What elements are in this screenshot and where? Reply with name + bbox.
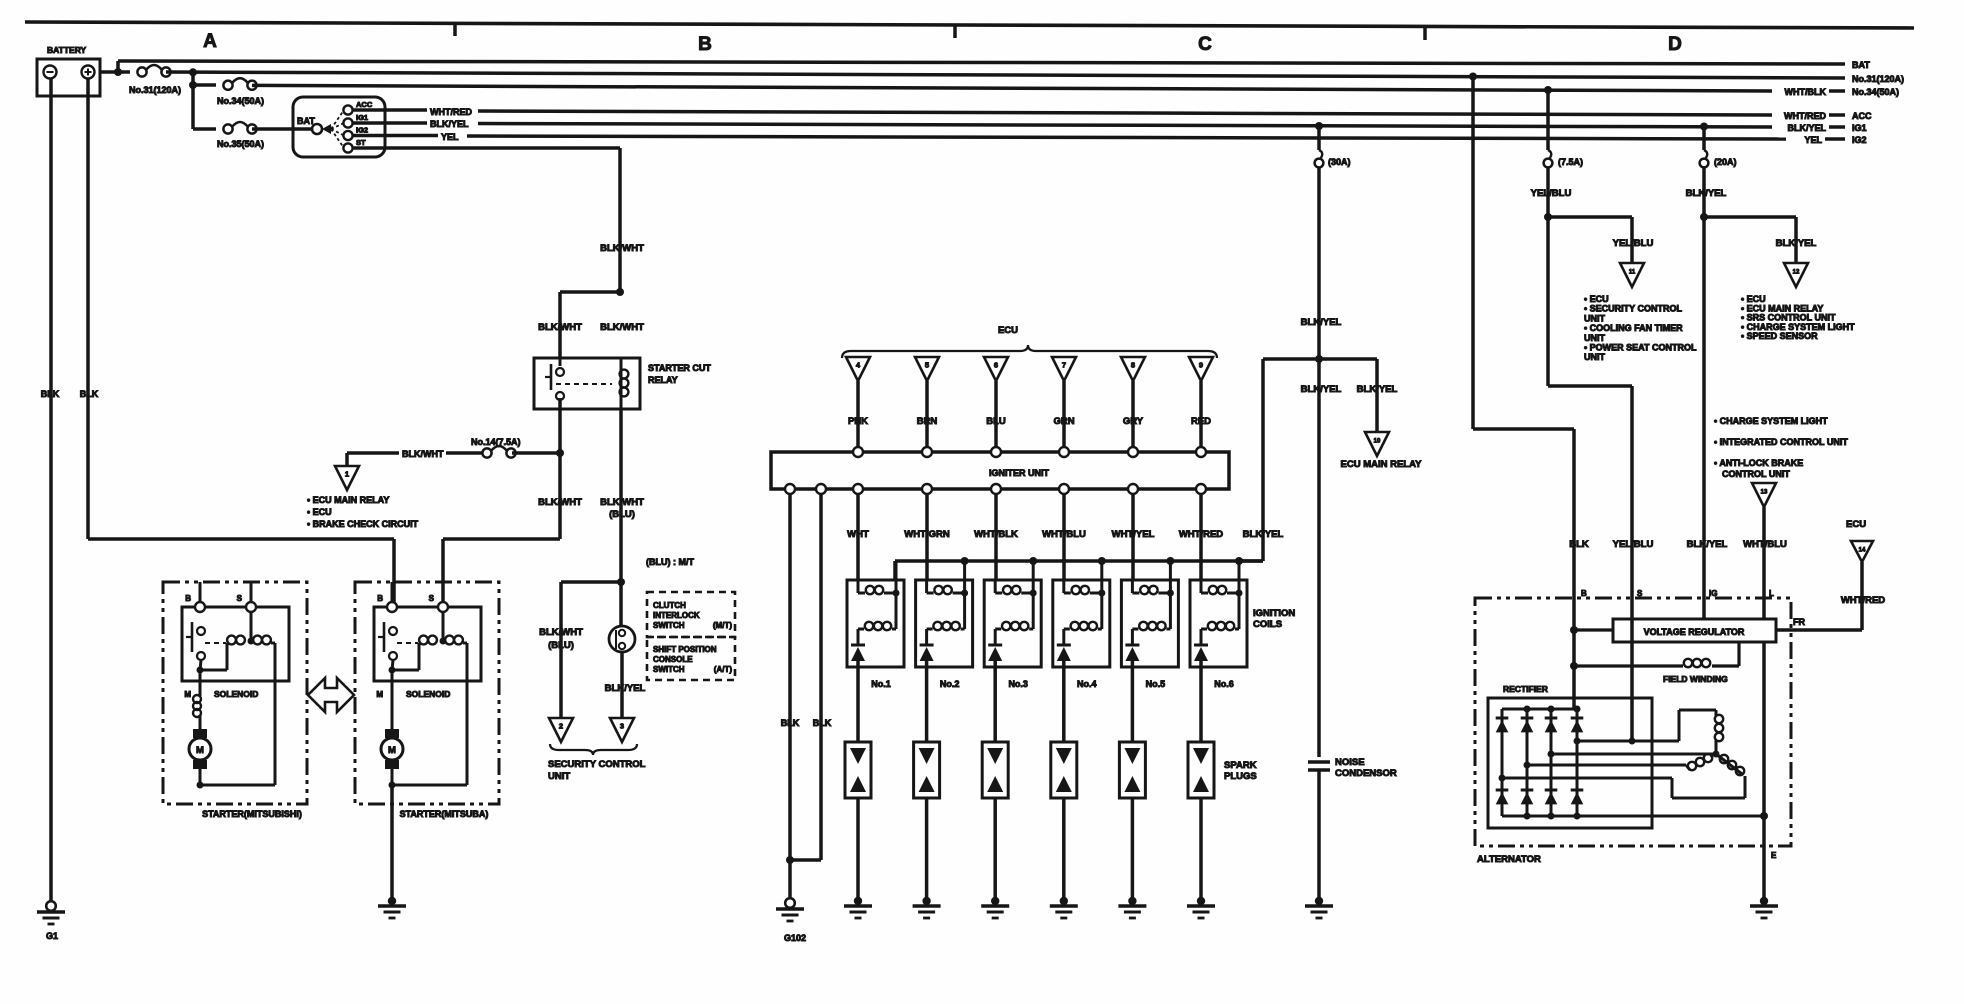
svg-text:No.6: No.6 xyxy=(1214,679,1234,689)
svg-text:UNIT: UNIT xyxy=(1584,352,1605,362)
svg-text:NOISE: NOISE xyxy=(1335,757,1365,768)
svg-text:(M/T): (M/T) xyxy=(713,621,732,630)
svg-text:PLUGS: PLUGS xyxy=(1224,771,1257,782)
svg-text:COILS: COILS xyxy=(1253,619,1282,630)
svg-text:• ECU: • ECU xyxy=(1584,294,1609,304)
svg-text:(30A): (30A) xyxy=(1328,157,1351,167)
svg-text:• BRAKE CHECK CIRCUIT: • BRAKE CHECK CIRCUIT xyxy=(307,519,419,529)
svg-text:IG1: IG1 xyxy=(1852,123,1867,133)
svg-text:UNIT: UNIT xyxy=(1584,313,1605,323)
svg-text:BLK/WHT: BLK/WHT xyxy=(539,627,583,638)
svg-text:YEL/BLU: YEL/BLU xyxy=(1531,188,1572,199)
svg-text:(7.5A): (7.5A) xyxy=(1558,157,1583,167)
svg-text:• ANTI-LOCK BRAKE: • ANTI-LOCK BRAKE xyxy=(1714,458,1803,468)
svg-text:(BLU): (BLU) xyxy=(609,509,635,520)
svg-text:RELAY: RELAY xyxy=(648,375,678,385)
svg-text:BLK: BLK xyxy=(41,389,60,399)
svg-text:• CHARGE SYSTEM LIGHT: • CHARGE SYSTEM LIGHT xyxy=(1714,416,1828,426)
svg-text:G102: G102 xyxy=(784,933,806,943)
svg-text:FIELD WINDING: FIELD WINDING xyxy=(1663,674,1728,684)
svg-text:WHT/BLK: WHT/BLK xyxy=(1785,87,1827,97)
svg-text:BLK/WHT: BLK/WHT xyxy=(600,243,644,254)
svg-text:• ECU MAIN RELAY: • ECU MAIN RELAY xyxy=(307,495,389,505)
svg-text:SHIFT POSITION: SHIFT POSITION xyxy=(653,645,717,654)
svg-text:No.5: No.5 xyxy=(1146,679,1166,689)
svg-text:GRN: GRN xyxy=(1053,416,1074,427)
svg-text:13: 13 xyxy=(1761,490,1768,496)
svg-text:ALTERNATOR: ALTERNATOR xyxy=(1477,854,1541,865)
svg-text:B: B xyxy=(698,34,712,55)
svg-text:RECTIFIER: RECTIFIER xyxy=(1503,684,1548,694)
svg-text:BLK/WHT: BLK/WHT xyxy=(538,497,582,508)
svg-text:IG: IG xyxy=(1709,589,1717,598)
svg-text:• SPEED SENSOR: • SPEED SENSOR xyxy=(1741,331,1818,341)
svg-text:7: 7 xyxy=(1062,361,1066,370)
svg-text:B: B xyxy=(377,594,383,603)
svg-text:No.14(7.5A): No.14(7.5A) xyxy=(471,437,521,447)
svg-text:IGNITER UNIT: IGNITER UNIT xyxy=(989,468,1050,478)
svg-text:CONDENSOR: CONDENSOR xyxy=(1335,768,1397,779)
svg-text:ST: ST xyxy=(356,138,366,147)
svg-text:YEL: YEL xyxy=(1804,135,1822,145)
svg-text:11: 11 xyxy=(1629,270,1636,276)
svg-text:BATTERY: BATTERY xyxy=(47,45,87,55)
svg-text:BLU: BLU xyxy=(986,416,1006,427)
svg-text:SPARK: SPARK xyxy=(1224,760,1257,771)
svg-text:No.34(50A): No.34(50A) xyxy=(217,96,264,106)
svg-text:14: 14 xyxy=(1859,548,1866,554)
svg-text:5: 5 xyxy=(925,361,929,370)
svg-text:B: B xyxy=(1581,589,1587,598)
svg-text:GRY: GRY xyxy=(1123,416,1144,427)
svg-text:STARTER CUT: STARTER CUT xyxy=(648,363,711,373)
svg-text:No.2: No.2 xyxy=(940,679,960,689)
svg-text:No.3: No.3 xyxy=(1008,679,1028,689)
svg-text:CONSOLE: CONSOLE xyxy=(653,655,693,664)
svg-text:SECURITY CONTROL: SECURITY CONTROL xyxy=(548,759,646,770)
svg-text:• COOLING FAN TIMER: • COOLING FAN TIMER xyxy=(1584,323,1683,333)
svg-text:BLK/YEL: BLK/YEL xyxy=(1776,238,1817,249)
svg-text:S: S xyxy=(237,594,243,603)
svg-text:No.31(120A): No.31(120A) xyxy=(1852,74,1904,84)
svg-text:CONTROL UNIT: CONTROL UNIT xyxy=(1722,469,1790,479)
svg-text:ECU MAIN RELAY: ECU MAIN RELAY xyxy=(1341,459,1423,470)
svg-text:8: 8 xyxy=(1131,361,1135,370)
svg-text:2: 2 xyxy=(559,722,563,731)
svg-text:BLK/YEL: BLK/YEL xyxy=(1301,317,1342,328)
svg-text:A: A xyxy=(203,31,217,52)
svg-text:BLK/YEL: BLK/YEL xyxy=(1787,123,1826,133)
svg-text:No.31(120A): No.31(120A) xyxy=(129,85,181,95)
svg-text:YEL/BLU: YEL/BLU xyxy=(1613,539,1654,550)
svg-text:12: 12 xyxy=(1793,270,1800,276)
svg-text:M: M xyxy=(196,745,204,756)
svg-text:S: S xyxy=(1637,589,1643,598)
svg-text:BLK: BLK xyxy=(781,718,800,728)
svg-text:D: D xyxy=(1668,34,1682,55)
svg-text:S: S xyxy=(429,594,435,603)
svg-text:BLK/YEL: BLK/YEL xyxy=(1301,384,1342,395)
svg-text:BAT: BAT xyxy=(1852,60,1870,70)
svg-text:WHT/RED: WHT/RED xyxy=(1841,595,1885,606)
svg-text:BLK/YEL: BLK/YEL xyxy=(605,683,646,694)
svg-text:ACC: ACC xyxy=(1852,111,1872,121)
svg-text:ACC: ACC xyxy=(356,100,373,109)
svg-text:B: B xyxy=(185,594,191,603)
svg-text:(BLU): (BLU) xyxy=(548,640,574,651)
svg-text:6: 6 xyxy=(994,361,998,370)
svg-text:BLK/WHT: BLK/WHT xyxy=(600,322,644,333)
svg-text:VOLTAGE REGULATOR: VOLTAGE REGULATOR xyxy=(1644,627,1745,637)
svg-text:BLK/YEL: BLK/YEL xyxy=(430,119,469,129)
svg-text:No.4: No.4 xyxy=(1077,679,1097,689)
svg-text:SOLENOID: SOLENOID xyxy=(406,689,450,699)
svg-text:PNK: PNK xyxy=(848,416,868,427)
svg-text:M: M xyxy=(388,745,396,756)
svg-text:L: L xyxy=(1769,589,1774,598)
svg-text:WHT/RED: WHT/RED xyxy=(430,107,472,117)
svg-text:IG1: IG1 xyxy=(356,113,368,122)
svg-text:BLK/YEL: BLK/YEL xyxy=(1687,539,1728,550)
svg-text:• ECU: • ECU xyxy=(307,507,332,517)
svg-text:WHT/BLU: WHT/BLU xyxy=(1743,539,1787,550)
svg-text:BLK: BLK xyxy=(813,718,832,728)
svg-text:BLK/WHT: BLK/WHT xyxy=(600,497,644,508)
svg-text:IG2: IG2 xyxy=(1852,135,1867,145)
svg-text:SOLENOID: SOLENOID xyxy=(214,689,258,699)
svg-text:• INTEGRATED CONTROL UNIT: • INTEGRATED CONTROL UNIT xyxy=(1714,437,1848,447)
svg-text:YEL/BLU: YEL/BLU xyxy=(1613,238,1654,249)
svg-text:(20A): (20A) xyxy=(1714,157,1737,167)
svg-text:C: C xyxy=(1198,34,1212,55)
svg-text:3: 3 xyxy=(620,722,624,731)
svg-text:YEL: YEL xyxy=(441,132,459,142)
svg-text:10: 10 xyxy=(1374,439,1381,445)
svg-text:M: M xyxy=(184,690,191,699)
svg-text:No.34(50A): No.34(50A) xyxy=(1852,87,1899,97)
svg-text:• SECURITY CONTROL: • SECURITY CONTROL xyxy=(1584,304,1682,314)
svg-text:ECU: ECU xyxy=(1846,519,1866,530)
svg-text:UNIT: UNIT xyxy=(1584,333,1605,343)
svg-text:No.35(50A): No.35(50A) xyxy=(217,139,264,149)
svg-text:M: M xyxy=(376,690,383,699)
svg-text:BAT: BAT xyxy=(297,116,315,126)
svg-text:UNIT: UNIT xyxy=(548,771,570,782)
svg-text:STARTER(MITSUBISHI): STARTER(MITSUBISHI) xyxy=(202,809,302,819)
svg-text:RED: RED xyxy=(1191,416,1211,427)
svg-text:E: E xyxy=(1771,851,1777,860)
svg-text:BLK: BLK xyxy=(1569,539,1589,550)
svg-text:BLK/WHT: BLK/WHT xyxy=(538,322,582,333)
svg-text:ECU: ECU xyxy=(998,325,1018,336)
svg-text:G1: G1 xyxy=(46,931,58,941)
svg-text:• POWER SEAT CONTROL: • POWER SEAT CONTROL xyxy=(1584,343,1697,353)
svg-text:SWITCH: SWITCH xyxy=(653,665,685,674)
svg-text:BLK/YEL: BLK/YEL xyxy=(1686,188,1727,199)
svg-text:IG2: IG2 xyxy=(356,126,368,135)
svg-text:(A/T): (A/T) xyxy=(714,665,733,674)
svg-text:CLUTCH: CLUTCH xyxy=(653,601,686,610)
svg-text:No.1: No.1 xyxy=(871,679,891,689)
svg-text:SWITCH: SWITCH xyxy=(653,621,685,630)
svg-text:FR: FR xyxy=(1793,617,1805,627)
svg-text:1: 1 xyxy=(345,470,349,479)
svg-text:STARTER(MITSUBA): STARTER(MITSUBA) xyxy=(400,809,489,819)
svg-text:BRN: BRN xyxy=(917,416,938,427)
svg-text:BLK/WHT: BLK/WHT xyxy=(402,449,444,459)
svg-text:9: 9 xyxy=(1199,361,1203,370)
svg-text:WHT/RED: WHT/RED xyxy=(1784,111,1826,121)
svg-text:(BLU) : M/T: (BLU) : M/T xyxy=(646,557,694,567)
svg-text:IGNITION: IGNITION xyxy=(1253,608,1295,619)
svg-text:INTERLOCK: INTERLOCK xyxy=(653,611,700,620)
